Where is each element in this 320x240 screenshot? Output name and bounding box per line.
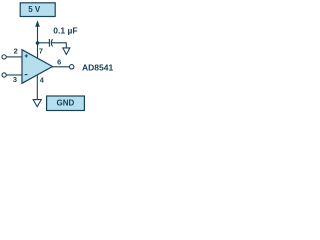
ground box GND xyxy=(47,96,85,111)
svg-text:2: 2 xyxy=(14,47,18,56)
wire V- vertical xyxy=(36,75,38,100)
node junction xyxy=(36,41,40,45)
wire output xyxy=(52,66,69,68)
plus sign xyxy=(25,54,28,57)
wire to capacitor xyxy=(38,42,50,44)
capacitor C1 left plate xyxy=(48,39,50,47)
svg-text:5 V: 5 V xyxy=(28,5,41,14)
svg-text:4: 4 xyxy=(40,76,45,85)
supply box 5V xyxy=(20,3,55,17)
op-amp U1 body xyxy=(22,50,53,84)
wire V+ vertical xyxy=(37,26,39,59)
minus sign xyxy=(25,74,28,76)
ground arrow (pin 4) xyxy=(33,100,41,107)
output terminal xyxy=(70,65,74,69)
svg-text:0.1 µF: 0.1 µF xyxy=(53,26,77,36)
capacitor C1 curved plate xyxy=(51,39,52,46)
ground arrow (capacitor) xyxy=(63,48,70,55)
svg-text:AD8541: AD8541 xyxy=(82,63,113,73)
svg-text:7: 7 xyxy=(39,46,43,55)
input terminal - xyxy=(2,73,6,77)
svg-text:6: 6 xyxy=(57,57,61,66)
wire input + xyxy=(6,56,22,58)
supply arrow up xyxy=(35,20,40,27)
svg-text:GND: GND xyxy=(57,98,75,107)
wire capacitor to ground xyxy=(51,43,66,48)
wire input - xyxy=(6,74,22,76)
input terminal + xyxy=(2,55,6,59)
svg-text:3: 3 xyxy=(13,75,17,84)
